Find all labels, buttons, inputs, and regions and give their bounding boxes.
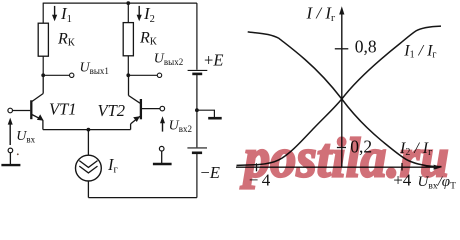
ground input2	[153, 146, 172, 164]
arrow I2	[137, 6, 142, 21]
graph y-axis	[339, 6, 344, 167]
wire right rail mid	[196, 75, 198, 148]
svg-text:+E: +E	[204, 51, 223, 70]
graph x-axis	[236, 165, 442, 170]
transistor VT1	[12, 75, 43, 129]
wire emitter rail	[43, 129, 131, 131]
wire right rail lower	[196, 153, 198, 197]
ground input1	[1, 148, 20, 165]
wire bottom rail	[88, 197, 196, 199]
stray dot	[17, 153, 19, 155]
wire right rail upper	[196, 3, 198, 70]
svg-text:−E: −E	[201, 163, 220, 182]
transistor VT2	[129, 75, 161, 129]
node collector VT2	[126, 73, 130, 77]
node emitter rail	[87, 128, 91, 132]
resistor RK1	[38, 23, 48, 56]
svg-text:VT2: VT2	[98, 101, 126, 120]
wire to output 2	[128, 74, 157, 76]
tick 0.2	[337, 147, 346, 149]
wire to output 1	[43, 74, 69, 76]
tick +4	[401, 163, 403, 171]
ground mid-rail	[197, 110, 222, 118]
svg-text:0,8: 0,8	[355, 36, 377, 56]
arrow Uvx1	[8, 118, 13, 145]
tick 0.8	[335, 48, 349, 50]
curve I1	[237, 26, 442, 165]
wire branch2 top lead	[127, 3, 129, 23]
wire top supply rail	[43, 2, 197, 4]
wire branch1 top lead	[42, 3, 44, 24]
battery -E	[187, 148, 207, 153]
terminal Uvyh1	[70, 73, 74, 77]
terminal input2	[160, 106, 165, 111]
svg-text:I1 / Iг: I1 / Iг	[403, 43, 436, 61]
current source Ig	[76, 130, 102, 198]
resistor RK2	[123, 23, 133, 56]
terminal Uvyh2	[157, 73, 161, 77]
arrow Uvx2	[160, 116, 165, 131]
wire branch2 collector lead	[127, 56, 129, 76]
tick -4	[256, 163, 258, 171]
svg-text:VT1: VT1	[49, 99, 77, 118]
node branch2 top	[126, 1, 130, 5]
node collector VT1	[41, 73, 45, 77]
wire branch1 collector lead	[42, 56, 44, 75]
arrow I1	[52, 6, 57, 21]
terminal input1	[8, 108, 13, 113]
curve I2	[248, 32, 442, 167]
battery +E	[188, 70, 208, 74]
svg-text:postila.ru: postila.ru	[240, 128, 449, 190]
node mid-rail	[195, 108, 199, 112]
